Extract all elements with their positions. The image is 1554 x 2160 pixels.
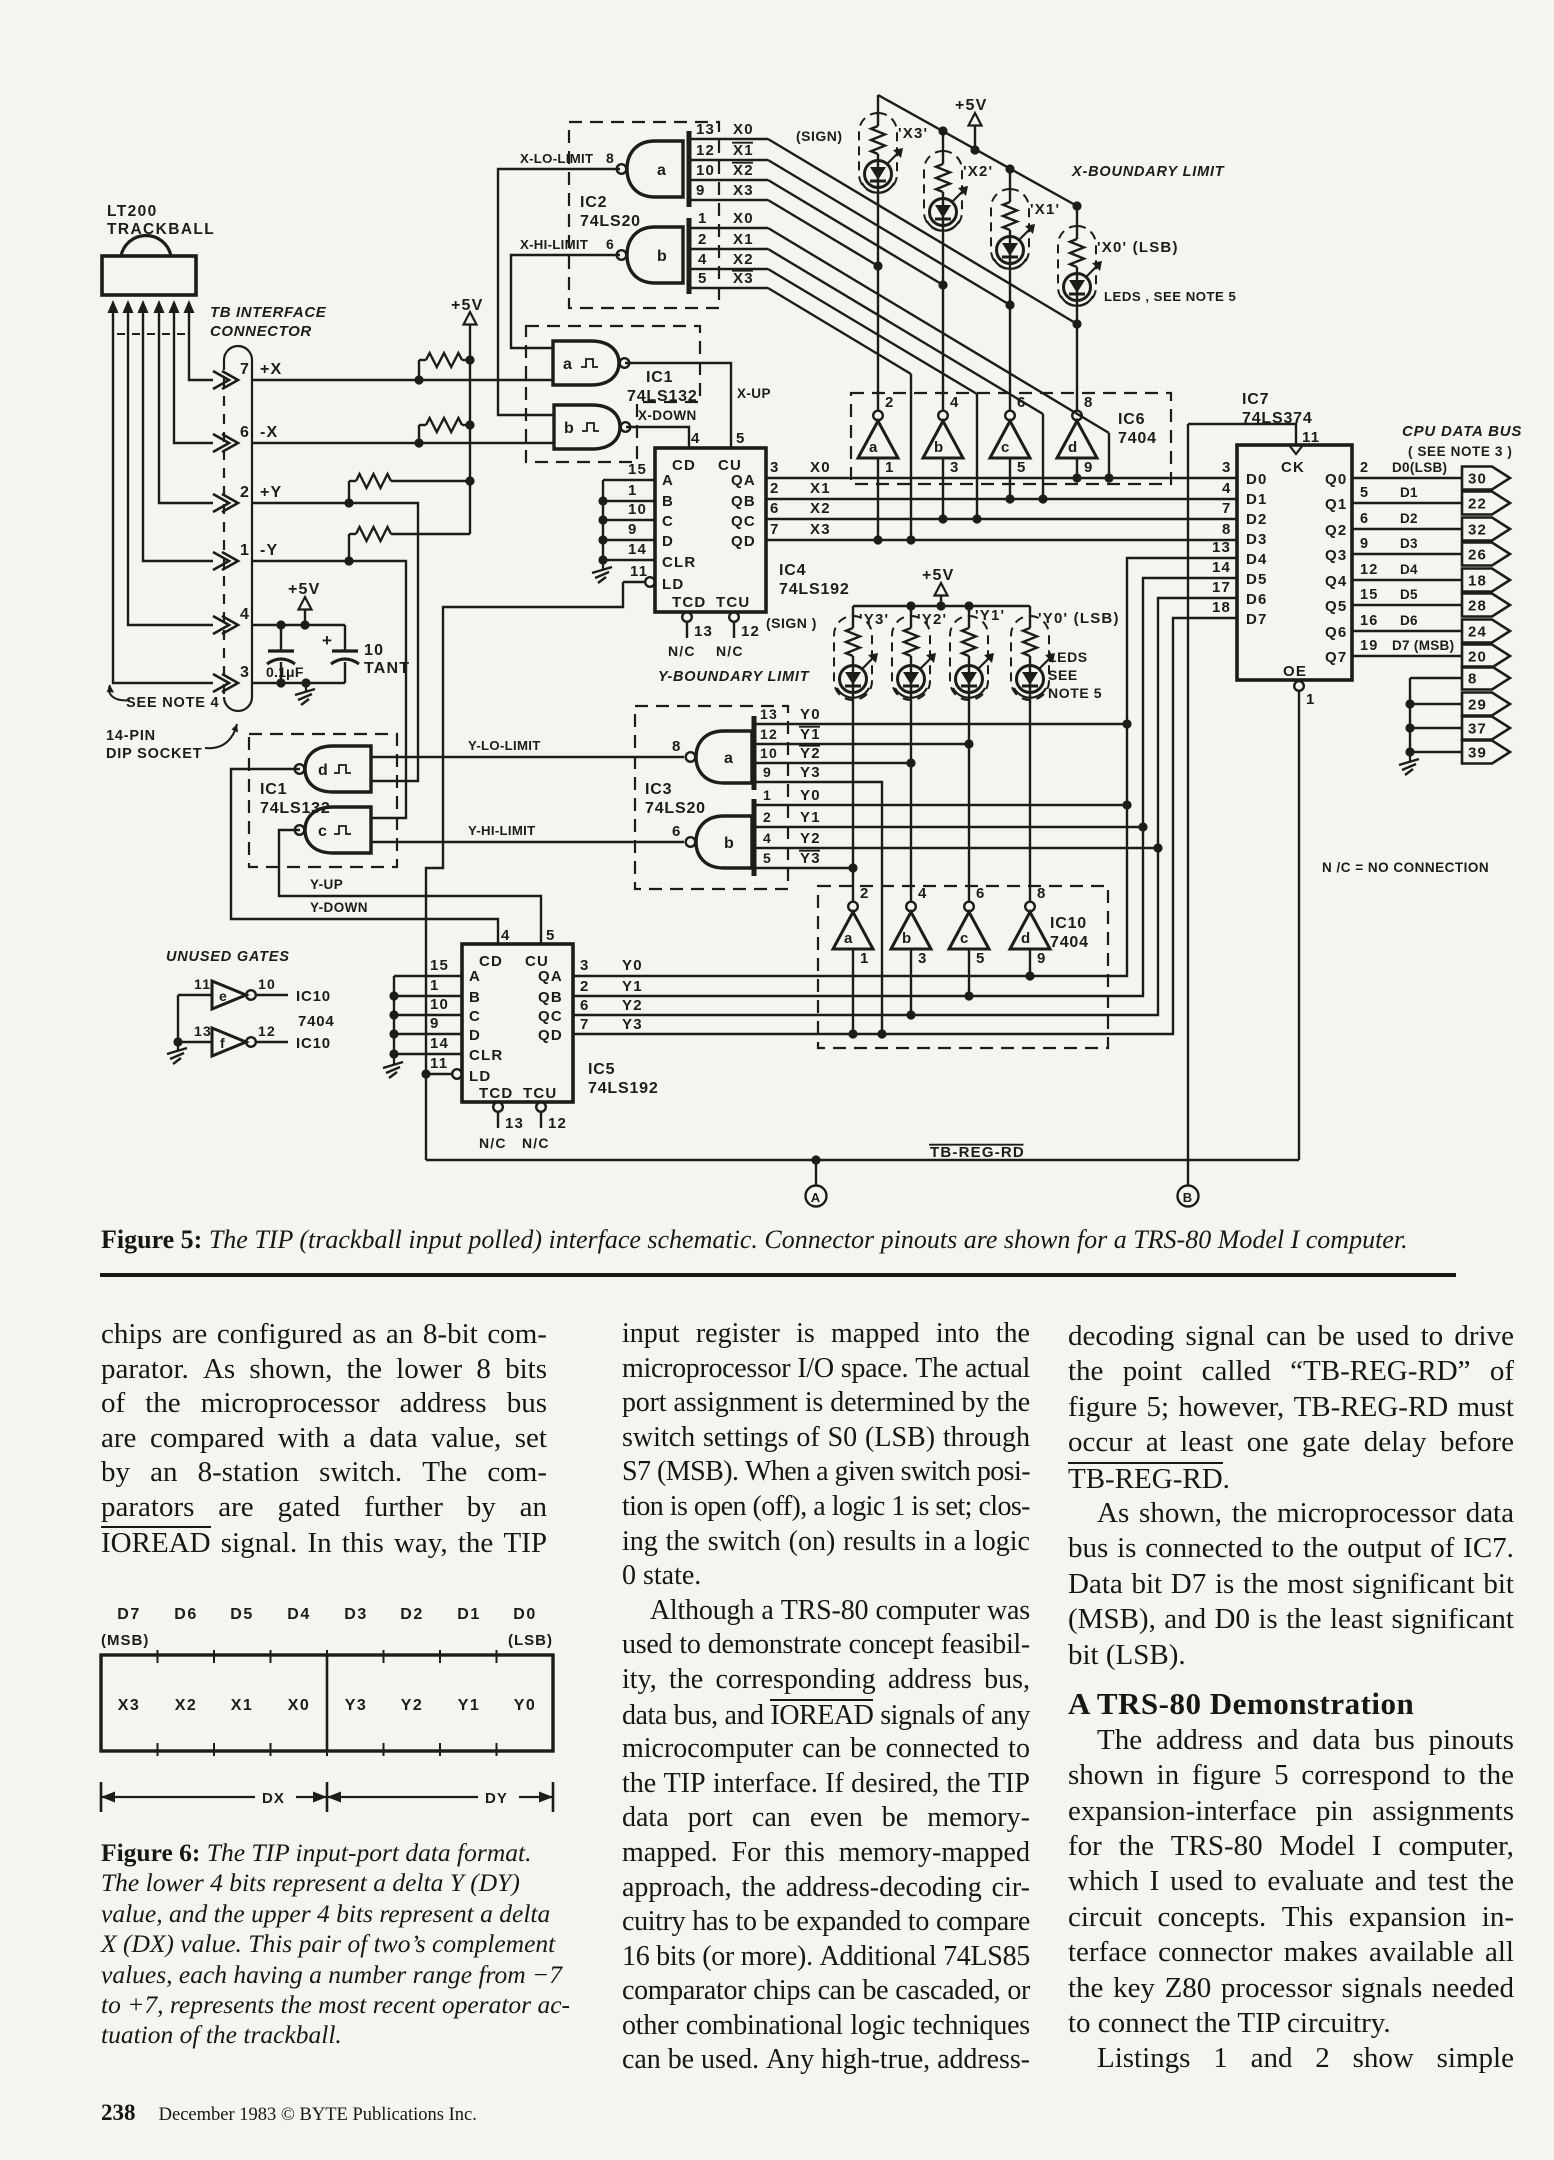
svg-text:17: 17 [1212, 579, 1231, 596]
svg-text:(SIGN): (SIGN) [796, 128, 843, 144]
svg-text:19: 19 [1360, 638, 1379, 654]
svg-text:A: A [662, 472, 674, 489]
svg-text:15: 15 [1360, 587, 1379, 603]
svg-text:4: 4 [763, 830, 772, 846]
trackball TB1 (LT200) [121, 236, 171, 256]
inverter IC6-c [1005, 411, 1015, 421]
IC4 TCD pin 13 N/C [682, 612, 692, 622]
svg-text:6: 6 [770, 500, 780, 517]
svg-text:6: 6 [976, 885, 986, 902]
svg-text:N /C = NO CONNECTION: N /C = NO CONNECTION [1322, 860, 1489, 875]
svg-text:8: 8 [1222, 521, 1232, 538]
LED indicator 'X3' column wire [877, 95, 879, 126]
svg-text:CK: CK [1281, 459, 1305, 476]
svg-text:SEE NOTE 4: SEE NOTE 4 [126, 695, 219, 711]
svg-text:D3: D3 [344, 1606, 367, 1623]
svg-text:'Y1': 'Y1' [975, 607, 1005, 624]
inverter IC6-d [1072, 411, 1082, 421]
svg-text:11: 11 [630, 563, 648, 580]
wire X-HI-LIMIT to IC1-a input [511, 255, 620, 348]
LED indicator 'Y2' column wire [910, 606, 912, 628]
wire -X [252, 442, 554, 444]
svg-text:Y1: Y1 [458, 1697, 481, 1714]
svg-text:IC6: IC6 [1118, 411, 1145, 428]
svg-text:X2: X2 [175, 1697, 198, 1714]
svg-text:12: 12 [1360, 562, 1379, 578]
IC1 c/d dashed outline (74LS132) [249, 734, 397, 867]
wire +Y [252, 503, 418, 781]
svg-text:QB: QB [731, 493, 756, 510]
svg-text:1: 1 [628, 482, 638, 499]
text column 1 [101, 1318, 547, 1560]
svg-text:c: c [960, 930, 970, 947]
page footer [101, 2100, 477, 2126]
LED indicator 'X1' column wire [1009, 169, 1011, 202]
svg-text:X1: X1 [231, 1697, 254, 1714]
svg-text:Y0: Y0 [800, 706, 821, 723]
svg-text:7: 7 [1222, 500, 1232, 517]
svg-text:X3: X3 [733, 270, 754, 287]
inverter IC10-f (unused) [178, 1041, 212, 1043]
bus connector pin 29 [1462, 693, 1510, 716]
figure 6 register box [101, 1655, 553, 1751]
svg-text:1: 1 [860, 950, 870, 967]
svg-text:TCD: TCD [479, 1085, 513, 1102]
svg-text:+5V: +5V [451, 297, 484, 314]
svg-text:74LS132: 74LS132 [627, 388, 698, 405]
svg-text:5: 5 [736, 430, 746, 447]
IC3-a input bar [752, 716, 757, 790]
bus connector pin 18 [1462, 569, 1510, 592]
svg-text:'X3': 'X3' [898, 125, 928, 142]
svg-text:LEDS , SEE NOTE 5: LEDS , SEE NOTE 5 [1104, 289, 1236, 304]
svg-text:8: 8 [606, 150, 615, 166]
svg-text:D3: D3 [1246, 531, 1268, 548]
inverter IC6-a [873, 411, 883, 421]
svg-text:Y1: Y1 [800, 809, 821, 826]
IC3-b input bar [752, 799, 757, 876]
wire IC4 LD to TB-REG-RD net [426, 582, 623, 1160]
riser junctions on Y1/Y2 nets [1138, 822, 1147, 831]
svg-text:9: 9 [696, 182, 706, 199]
bus connector pin 30 [1462, 467, 1510, 490]
svg-text:N/C: N/C [668, 643, 696, 659]
svg-text:QD: QD [538, 1027, 563, 1044]
svg-text:9: 9 [1037, 950, 1047, 967]
svg-text:TANT: TANT [364, 660, 410, 677]
text column 3 [1068, 1320, 1514, 2078]
svg-text:A: A [469, 968, 481, 985]
svg-text:14: 14 [628, 541, 647, 558]
svg-text:1: 1 [698, 210, 708, 227]
svg-text:Y0: Y0 [514, 1697, 537, 1714]
LED 'Y0' (LSB) [1017, 666, 1044, 693]
svg-text:2: 2 [240, 484, 250, 501]
svg-text:11: 11 [430, 1055, 448, 1072]
section rule [100, 1273, 1456, 1277]
svg-text:D4: D4 [1246, 551, 1268, 568]
svg-text:D1: D1 [1246, 491, 1268, 508]
IC10 dashed outline (7404) [818, 886, 1108, 1048]
svg-text:X3: X3 [118, 1697, 141, 1714]
svg-text:D6: D6 [1246, 591, 1268, 608]
Y bus line Y0 (QA to IC7 D4) [573, 558, 1237, 976]
svg-text:X-LO-LIMIT: X-LO-LIMIT [520, 151, 593, 166]
svg-text:11: 11 [194, 976, 211, 992]
svg-text:D1: D1 [1400, 485, 1418, 500]
svg-text:CD: CD [672, 457, 696, 474]
resistor R3 (+Y pullup) [348, 481, 350, 503]
svg-text:OE: OE [1283, 663, 1307, 680]
svg-text:IC4: IC4 [779, 562, 806, 579]
svg-text:D4: D4 [287, 1606, 310, 1623]
LED indicator 'Y3' column wire [852, 606, 854, 628]
svg-text:D4: D4 [1400, 562, 1418, 577]
svg-text:N/C: N/C [522, 1135, 550, 1151]
svg-text:QC: QC [731, 513, 756, 530]
IC2-b input bar [687, 218, 692, 294]
svg-text:c: c [1001, 439, 1011, 456]
IC4 LD pin with bubble [645, 577, 655, 587]
svg-text:9: 9 [763, 764, 772, 780]
svg-text:CPU DATA BUS: CPU DATA BUS [1402, 423, 1522, 440]
connector pin chevrons [213, 371, 229, 389]
schmitt NAND IC1-b [554, 405, 620, 449]
svg-text:30: 30 [1468, 471, 1487, 488]
dashed tie line across trackball wires [117, 333, 187, 335]
svg-text:D3: D3 [1400, 536, 1418, 551]
node B riser [1187, 424, 1189, 1186]
svg-text:+5V: +5V [288, 581, 321, 598]
svg-text:22: 22 [1468, 496, 1487, 513]
Y bus line Y3 (QD to IC7 D7) [573, 618, 1237, 1034]
bus connector pin 8 [1462, 667, 1510, 690]
svg-text:'X1': 'X1' [1030, 201, 1060, 218]
IC1 a/b dashed outline (74LS132) [526, 326, 700, 462]
inverter IC10-b [906, 902, 916, 912]
svg-text:D0: D0 [1246, 471, 1268, 488]
svg-text:UNUSED GATES: UNUSED GATES [166, 949, 290, 965]
svg-text:CLR: CLR [469, 1047, 503, 1064]
svg-text:6: 6 [240, 424, 250, 441]
resistor R1 (+X pullup) [418, 360, 420, 380]
svg-text:14: 14 [430, 1035, 449, 1052]
bus connector pin 28 [1462, 594, 1510, 617]
svg-text:'X2': 'X2' [963, 163, 993, 180]
inverter IC6-b [938, 411, 948, 421]
svg-text:13: 13 [194, 1023, 212, 1039]
svg-text:5: 5 [698, 270, 708, 287]
wire Q out D1 [1352, 502, 1462, 504]
schmitt NAND IC1-c [305, 807, 371, 853]
svg-text:IC7: IC7 [1242, 391, 1269, 408]
svg-text:28: 28 [1468, 598, 1487, 615]
IC6 dashed outline (7404) [851, 393, 1171, 484]
svg-text:9: 9 [1360, 536, 1369, 552]
figure 5 caption [101, 1225, 1501, 1255]
svg-text:14-PIN: 14-PIN [106, 728, 156, 744]
svg-text:N/C: N/C [716, 643, 744, 659]
svg-text:Y-DOWN: Y-DOWN [310, 900, 368, 915]
wire TB-REG-RD [426, 1159, 1299, 1161]
svg-text:TB INTERFACE: TB INTERFACE [210, 304, 327, 321]
svg-text:X2: X2 [733, 251, 754, 268]
resistor (LED 0 limit) [871, 126, 885, 154]
svg-text:X-UP: X-UP [737, 386, 771, 401]
svg-text:(LSB): (LSB) [508, 1632, 553, 1649]
resistor (LED 1 limit) [936, 164, 950, 192]
svg-text:Y3: Y3 [800, 764, 821, 781]
svg-text:b: b [934, 439, 944, 456]
svg-text:X2: X2 [733, 162, 754, 179]
wire CK (clock from node B) [1188, 424, 1296, 445]
svg-text:'Y2': 'Y2' [917, 611, 947, 628]
wire +X [252, 379, 553, 381]
svg-text:7: 7 [580, 1016, 590, 1033]
svg-text:15: 15 [628, 461, 647, 478]
schmitt NAND IC1-d [305, 746, 371, 792]
resistor (LED limit) [904, 628, 918, 656]
Y bus line Y2 (QC to IC7 D6) [573, 598, 1237, 1015]
svg-text:Y-LO-LIMIT: Y-LO-LIMIT [468, 738, 541, 753]
ground (decoupling) [301, 678, 310, 687]
svg-text:1: 1 [240, 542, 250, 559]
svg-text:74LS192: 74LS192 [779, 581, 850, 598]
svg-text:a: a [724, 750, 734, 767]
+5V rail diagonal (X LEDs) [878, 95, 1077, 206]
svg-text:IC10: IC10 [296, 988, 331, 1005]
svg-text:4: 4 [918, 885, 928, 902]
svg-text:2: 2 [860, 885, 870, 902]
svg-text:a: a [657, 162, 667, 179]
text column 2 [622, 1318, 1030, 2079]
svg-text:IC10: IC10 [1050, 915, 1087, 932]
LED 'X3' [865, 161, 892, 188]
svg-text:4: 4 [950, 394, 960, 411]
resistor R4 (-Y pullup) [348, 534, 350, 561]
svg-text:B: B [469, 989, 481, 1006]
svg-text:0.1μF: 0.1μF [266, 664, 304, 680]
svg-text:2: 2 [885, 394, 895, 411]
svg-text:8: 8 [672, 738, 682, 755]
svg-text:15: 15 [430, 957, 449, 974]
svg-text:TCU: TCU [523, 1085, 557, 1102]
X bus diagonals from IC2 inputs [768, 139, 1077, 324]
svg-text:5: 5 [763, 850, 772, 866]
note 4 arrow [109, 685, 130, 700]
svg-text:7404: 7404 [1050, 934, 1089, 951]
svg-text:D2: D2 [1400, 511, 1418, 526]
+5V rail (Y LEDs) [853, 605, 1030, 607]
figure 6 bit tick marks [157, 1650, 159, 1663]
svg-text:39: 39 [1468, 745, 1487, 762]
svg-text:+Y: +Y [260, 484, 282, 501]
svg-text:D: D [662, 533, 674, 550]
svg-text:Q7: Q7 [1325, 649, 1347, 666]
svg-text:6: 6 [1360, 511, 1369, 527]
figure 6 diagram [0, 1595, 620, 1825]
svg-text:Y2: Y2 [800, 830, 821, 847]
resistor (LED limit) [1023, 628, 1037, 656]
wire Y-UP (IC1-c out to IC5 CU) [279, 830, 541, 944]
svg-text:DY: DY [485, 1790, 508, 1807]
svg-text:9: 9 [628, 521, 638, 538]
resistor (LED limit) [962, 628, 976, 656]
wire Y-DOWN (IC1-d out to IC5 CD) [231, 769, 498, 944]
svg-text:X3: X3 [810, 521, 831, 538]
svg-text:1: 1 [885, 459, 895, 476]
svg-text:5: 5 [1017, 459, 1027, 476]
inverter IC10-e (unused) [178, 994, 212, 996]
IC5 LD pin with bubble [452, 1069, 462, 1079]
LED 'Y1' [956, 666, 983, 693]
NAND IC2-b (4-input) [627, 227, 683, 283]
svg-text:IC5: IC5 [588, 1061, 615, 1078]
svg-text:D2: D2 [400, 1606, 423, 1623]
svg-text:6: 6 [580, 997, 590, 1014]
svg-text:Y-BOUNDARY LIMIT: Y-BOUNDARY LIMIT [658, 669, 810, 685]
svg-text:X0: X0 [733, 210, 754, 227]
svg-text:6: 6 [606, 236, 615, 252]
svg-text:6: 6 [672, 823, 682, 840]
wire Q out D2 [1352, 528, 1462, 530]
resistor (LED 3 limit) [1070, 239, 1084, 267]
svg-text:Q2: Q2 [1325, 522, 1347, 539]
LED indicator 'Y1' column wire [968, 606, 970, 628]
svg-text:D6: D6 [174, 1606, 197, 1623]
svg-text:D2: D2 [1246, 511, 1268, 528]
svg-text:4: 4 [240, 606, 250, 623]
svg-text:26: 26 [1468, 547, 1487, 564]
inverter IC10-c [964, 902, 974, 912]
svg-text:3: 3 [580, 957, 590, 974]
svg-text:LD: LD [469, 1068, 491, 1085]
wire Q out D7 (MSB) [1352, 655, 1462, 657]
IC5 input stubs A-CLR [394, 975, 462, 977]
bus connector pin 26 [1462, 543, 1510, 566]
IC2 dashed outline (74LS20) [569, 122, 719, 308]
svg-text:12: 12 [760, 726, 778, 742]
svg-text:LEDS: LEDS [1048, 649, 1088, 665]
svg-text:8: 8 [1037, 885, 1047, 902]
svg-text:2: 2 [698, 231, 708, 248]
svg-text:8: 8 [1468, 671, 1478, 688]
svg-text:c: c [318, 823, 328, 840]
wire Y-HI-LIMIT (IC3-b out to IC1-c) [372, 841, 684, 843]
svg-text:+X: +X [260, 361, 282, 378]
svg-text:QD: QD [731, 533, 756, 550]
svg-text:74LS20: 74LS20 [580, 213, 641, 230]
schmitt NAND IC1-a [553, 341, 619, 385]
svg-text:8: 8 [1084, 394, 1094, 411]
inverter IC10-a [848, 902, 858, 912]
svg-text:(MSB): (MSB) [101, 1632, 149, 1649]
svg-text:2: 2 [770, 480, 780, 497]
svg-text:NOTE 5: NOTE 5 [1048, 685, 1102, 701]
svg-text:+5V: +5V [922, 567, 955, 584]
svg-text:D5: D5 [230, 1606, 253, 1623]
svg-text:13: 13 [694, 623, 713, 640]
wire -Y [252, 561, 406, 818]
figure 6 nibble divider [326, 1655, 329, 1751]
LED indicator 'Y0' (LSB) column wire [1029, 606, 1031, 628]
svg-text:D5: D5 [1246, 571, 1268, 588]
bus connector pin 39 [1462, 741, 1510, 764]
diagonal drop wires to X bus [1108, 433, 1110, 478]
svg-text:X-HI-LIMIT: X-HI-LIMIT [520, 237, 588, 252]
svg-text:D0: D0 [513, 1606, 536, 1623]
svg-text:Y2: Y2 [622, 997, 643, 1014]
svg-text:+: + [322, 631, 333, 650]
svg-text:13: 13 [760, 706, 778, 722]
svg-text:Y-UP: Y-UP [310, 877, 343, 892]
14-pin DIP socket outline left side [223, 360, 225, 697]
svg-text:IC1: IC1 [646, 369, 673, 386]
IC3 dashed outline (74LS20) [635, 706, 788, 889]
svg-text:a: a [869, 439, 879, 456]
inverter IC10-d [1025, 902, 1035, 912]
LED 'Y2' [898, 666, 925, 693]
schematic figure 5 [0, 0, 1554, 1230]
svg-text:Q5: Q5 [1325, 598, 1347, 615]
IC4 input stubs A-CLR [603, 479, 655, 481]
svg-text:X0: X0 [810, 459, 831, 476]
svg-text:16: 16 [1360, 613, 1379, 629]
svg-text:D7 (MSB): D7 (MSB) [1392, 638, 1454, 653]
svg-text:11: 11 [1302, 429, 1320, 446]
figure 6 caption [101, 1838, 553, 2051]
svg-text:13: 13 [505, 1115, 524, 1132]
Y bus lower lines from IC3-b [754, 804, 1127, 806]
node B [1178, 1186, 1199, 1207]
svg-text:Y-HI-LIMIT: Y-HI-LIMIT [468, 823, 535, 838]
bus connector pin 22 [1462, 492, 1510, 515]
svg-text:5: 5 [546, 927, 556, 944]
svg-text:a: a [563, 356, 573, 373]
IC7 74LS374 octal latch [1237, 445, 1352, 680]
svg-text:D: D [469, 1027, 481, 1044]
ground tie vertical [1409, 678, 1411, 752]
svg-text:9: 9 [1084, 459, 1094, 476]
wire Q out D6 [1352, 630, 1462, 632]
figure 6 DY dimension arrow [327, 1796, 478, 1798]
svg-text:d: d [1068, 439, 1078, 456]
LED 'Y3' [840, 666, 867, 693]
svg-text:13: 13 [1212, 539, 1231, 556]
svg-text:Q4: Q4 [1325, 573, 1347, 590]
IC5 TCD pin 13 N/C [493, 1102, 503, 1112]
svg-text:10: 10 [696, 162, 715, 179]
IC2-a input bar [687, 131, 692, 207]
LED 'X0' (LSB) [1064, 274, 1091, 301]
svg-text:CD: CD [479, 953, 503, 970]
svg-text:Y3: Y3 [800, 850, 821, 867]
svg-text:IC10: IC10 [296, 1035, 331, 1052]
svg-text:12: 12 [696, 142, 715, 159]
svg-text:4: 4 [501, 927, 511, 944]
svg-text:Y0: Y0 [622, 957, 643, 974]
IC4 74LS192 up/down counter [655, 448, 766, 612]
capacitor C1 0.1uF [280, 625, 282, 651]
ground (IC5 inputs) [393, 1058, 395, 1064]
svg-text:TCU: TCU [716, 594, 750, 611]
svg-text:'Y3': 'Y3' [859, 611, 889, 628]
LED indicator 'X2' column wire [942, 131, 944, 164]
svg-text:Y1: Y1 [800, 726, 821, 743]
svg-text:IC2: IC2 [580, 194, 607, 211]
svg-text:b: b [564, 420, 575, 437]
svg-text:7: 7 [770, 521, 780, 538]
